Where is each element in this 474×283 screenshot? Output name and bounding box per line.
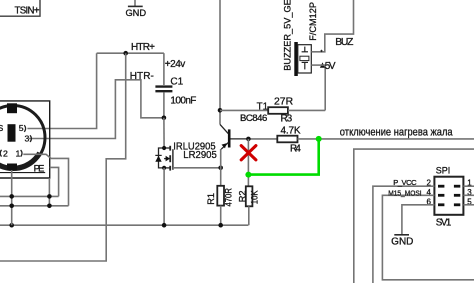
svg-text:5V: 5V [325, 61, 336, 72]
wire M15_MOSI [382, 195, 474, 279]
node C1 bottom junction [162, 116, 167, 121]
wire HTR+ net [97, 52, 164, 54]
ground GND (right) [391, 235, 413, 248]
node HTR+ junction [123, 51, 128, 56]
svg-text:R3: R3 [281, 114, 293, 125]
box outline (bottom right) [354, 149, 474, 283]
svg-text:PE: PE [34, 162, 45, 173]
svg-text:100nF: 100nF [170, 95, 196, 106]
node green dot left [245, 172, 251, 178]
wire gate [173, 167, 221, 169]
node bus1-shell [9, 194, 14, 199]
svg-text:M15_MOSI: M15_MOSI [388, 189, 421, 198]
svg-text:LR2905: LR2905 [183, 150, 217, 161]
resistor R3 27R [220, 107, 325, 114]
node bus2-corner [47, 204, 52, 209]
svg-text:2: 2 [3, 149, 8, 159]
resistor R2 10K [246, 186, 253, 225]
node collector junction [218, 108, 223, 113]
svg-text:10K: 10K [250, 190, 260, 205]
node rail-shell junction [9, 223, 14, 228]
wire collector rail from top [219, 0, 221, 124]
transistor Q1 IRLU2905 (N-MOSFET) [155, 146, 173, 171]
node gate junction [218, 166, 223, 171]
svg-text:SPI: SPI [436, 166, 451, 176]
transistor T1 BC846 (NPN) [220, 124, 248, 149]
wire pin1 [23, 154, 68, 206]
svg-text:GND: GND [125, 8, 146, 18]
wire base to R2 [247, 139, 249, 186]
resistor R1 470R [217, 186, 224, 225]
wire pin3 to HTR- [29, 80, 164, 139]
svg-text:470R: 470R [223, 188, 233, 207]
wire +5V to R3 [324, 65, 326, 110]
svg-text:SV1: SV1 [436, 217, 452, 228]
svg-text:HTR-: HTR- [130, 71, 154, 82]
wire pin5 to HTR+ [27, 53, 96, 128]
wire source [163, 168, 165, 225]
wire PE [50, 167, 59, 196]
wire bottom bus 2 [0, 205, 69, 207]
node rail-source junction [162, 223, 167, 228]
svg-text:5: 5 [19, 123, 24, 133]
svg-text:отключение нагрева жала: отключение нагрева жала [340, 126, 453, 138]
wire drain [163, 118, 165, 148]
svg-text:S: S [0, 123, 4, 133]
annotation green jumper wire [248, 139, 318, 175]
node rail-R1 junction [218, 223, 223, 228]
buzzer BZ1 [294, 42, 311, 76]
wire pin5 right [463, 204, 474, 206]
annotation red X (crossed out wire) [241, 146, 256, 160]
wire pin6 to GND [402, 205, 435, 234]
wire pin1 right [463, 185, 474, 187]
pin + mark [320, 50, 322, 52]
ground GND (top) [125, 0, 146, 18]
svg-text:P_VCC: P_VCC [393, 178, 417, 187]
svg-text:F/CM12P: F/CM12P [308, 2, 318, 41]
wire buzzer top pin to BUZ [311, 0, 353, 52]
node base junction [246, 137, 251, 142]
header SV1 (SPI) [434, 177, 463, 215]
node bus2-shell [9, 204, 14, 209]
wire shell down [11, 170, 13, 225]
node green dot right [316, 136, 322, 142]
svg-text:GND: GND [391, 236, 413, 247]
svg-text:BC846: BC846 [240, 113, 267, 124]
resistor R4 4.7K [248, 136, 474, 143]
box TSIN+ (top-left, cut off) [0, 0, 40, 16]
node bus1-corner [47, 194, 52, 199]
svg-text:HTR+: HTR+ [131, 42, 155, 53]
svg-text:27R: 27R [274, 97, 294, 108]
svg-text:BUZ: BUZ [335, 37, 353, 48]
wire P_VCC [373, 186, 435, 283]
wire emitter down [220, 149, 222, 185]
svg-text:3: 3 [25, 134, 30, 144]
svg-text:R2: R2 [237, 190, 247, 202]
wire box corner down [48, 178, 50, 206]
svg-text:+24v: +24v [165, 59, 186, 70]
wire pin3 right [463, 194, 474, 196]
svg-text:1: 1 [16, 149, 21, 159]
wire bottom bus 1 [0, 195, 59, 197]
wire ground rail [0, 224, 248, 226]
power +5V flag [320, 61, 336, 72]
connector J1 (DIN socket) [0, 101, 50, 178]
capacitor C1 [155, 53, 172, 118]
svg-text:4.7K: 4.7K [281, 126, 301, 137]
svg-text:C1: C1 [170, 76, 183, 87]
svg-text:TSIN+: TSIN+ [15, 5, 40, 16]
svg-text:R4: R4 [290, 144, 301, 155]
wire HTR+ down-left loop [0, 53, 126, 261]
wire buzzer bottom pin to +5V [311, 64, 325, 66]
svg-text:BUZZER_5V_GEN: BUZZER_5V_GEN [283, 0, 293, 71]
svg-text:R1: R1 [206, 193, 216, 205]
